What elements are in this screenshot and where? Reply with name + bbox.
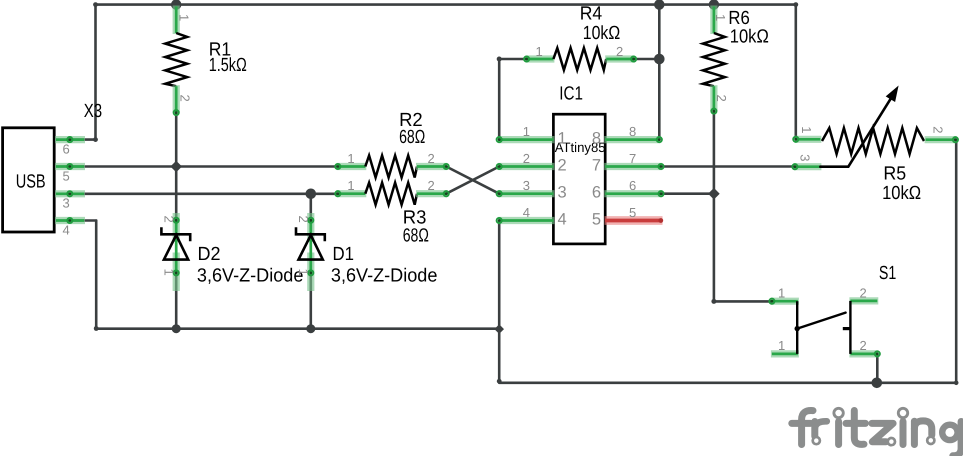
resistor R3 68 ohm (337, 190, 367, 197)
wire USB pin4 horizontal (71, 219, 96, 222)
svg-text:4: 4 (523, 205, 530, 220)
svg-text:68Ω: 68Ω (399, 127, 425, 148)
svg-text:1: 1 (523, 124, 530, 139)
wire USB pin6 to left vertical (71, 138, 96, 141)
svg-text:8: 8 (629, 124, 636, 139)
junction top rail / R1 (171, 0, 181, 10)
wire R1 pin2 down through junction to D2 pin2 (175, 112, 178, 222)
svg-text:7: 7 (592, 157, 601, 175)
fritzing logo (792, 408, 961, 456)
wire D2 pin1 down to bottom-left rail (175, 272, 178, 329)
svg-text:1: 1 (177, 14, 192, 21)
op-amp U1 : IC1 ATtiny85 DIP8 body (553, 114, 605, 244)
svg-text:5: 5 (63, 168, 70, 183)
junction bottom-left rail / D1 (306, 324, 315, 333)
wire USB pin3 to R3 pin1 (71, 193, 338, 196)
svg-text:4: 4 (63, 222, 70, 237)
IC1 pin 5 red wire (unrouted) (605, 216, 663, 225)
connector X3 USB (3, 128, 55, 232)
wire USB pin5 to R2 pin1 (71, 165, 338, 168)
svg-text:1: 1 (536, 44, 543, 59)
X3 pin 4 (55, 217, 85, 224)
IC1 pin 4 (498, 217, 554, 224)
svg-text:2: 2 (523, 151, 530, 166)
svg-text:2: 2 (296, 216, 311, 223)
resistor R2 68 ohm (337, 163, 367, 170)
svg-text:1: 1 (778, 338, 785, 353)
svg-text:1: 1 (713, 14, 728, 21)
wire crossover R3 pin2 to IC1 pin2 (446, 167, 499, 194)
S1 pin 2 bottom (849, 350, 878, 357)
wire crossover R2 pin2 to IC1 pin3 (446, 167, 499, 194)
svg-text:1: 1 (778, 285, 785, 300)
wire top rail down to IC1 pin8 (658, 5, 661, 140)
S1 lever (797, 313, 845, 329)
svg-text:1: 1 (558, 130, 567, 148)
wire left vertical from top rail to USB pin6 (94, 5, 97, 140)
svg-text:D2: D2 (198, 244, 221, 265)
svg-text:2: 2 (428, 151, 435, 166)
junction bottom-left rail / D2 (172, 324, 181, 333)
wire IC1 pin7 to R5 wiper pin3 (661, 165, 795, 168)
resistor R4 10k (526, 55, 555, 62)
node top-right corner (793, 2, 798, 7)
IC1 pin 8 (604, 136, 660, 143)
wire R4 pin1 left (499, 58, 526, 61)
wire D1 pin1 down to bottom-left rail (309, 272, 312, 329)
node bottom rail right corner (954, 381, 959, 386)
wire IC1 pin4 down (498, 221, 501, 382)
wire R6 pin2 down to switch S1 (713, 111, 716, 301)
S1 pin 1 top (771, 298, 799, 305)
svg-text:2: 2 (616, 44, 623, 59)
svg-text:2: 2 (860, 285, 867, 300)
svg-text:X3: X3 (84, 101, 102, 122)
S1 right pole (849, 301, 851, 354)
S1 pin 1 bottom (n.c.) (771, 350, 799, 357)
svg-text:1: 1 (347, 178, 354, 193)
resistor R6 10k (710, 6, 717, 35)
node USB pin6 wire corner (93, 137, 98, 142)
node top-left corner (93, 2, 98, 7)
diode D1 zener (307, 213, 314, 242)
svg-text:68Ω: 68Ω (403, 226, 429, 247)
S1 pin 2 top (849, 297, 878, 304)
svg-text:2: 2 (860, 338, 867, 353)
X3 pin 6 (55, 136, 85, 143)
svg-text:7: 7 (629, 151, 636, 166)
potentiometer R5 10k (795, 136, 822, 143)
svg-text:3: 3 (797, 154, 812, 161)
resistor R1 1.5k (173, 6, 180, 35)
node bottom-left corner (94, 326, 99, 331)
svg-text:3,6V-Z-Diode: 3,6V-Z-Diode (197, 265, 304, 286)
node IC1 pin4 drop corner (497, 379, 502, 384)
wire S1 pin2 down to bottom rail (876, 354, 879, 383)
svg-text:10kΩ: 10kΩ (882, 183, 921, 204)
X3 pin 3 (55, 190, 85, 197)
wire bottom-left ground rail (96, 327, 499, 330)
svg-text:6: 6 (592, 184, 601, 202)
svg-text:USB: USB (16, 172, 46, 193)
svg-text:R4: R4 (580, 3, 603, 24)
svg-text:2: 2 (714, 95, 729, 102)
wire bottom rail (499, 381, 956, 384)
junction top rail / IC1 pin8 drop (654, 0, 664, 10)
svg-text:2: 2 (558, 157, 567, 175)
svg-text:2: 2 (931, 126, 946, 133)
IC1 pin 3 (498, 190, 554, 197)
IC1 pin 1 (498, 136, 554, 143)
svg-text:1.5kΩ: 1.5kΩ (209, 55, 247, 76)
R5 wiper pin 3 (794, 163, 822, 170)
R5 resistive track zigzag (822, 128, 924, 154)
junction R4 pin2 / pin8 drop (654, 54, 665, 65)
IC1 pin 7 (604, 163, 662, 170)
wire R4 pin2 right (634, 58, 660, 61)
svg-text:3: 3 (63, 196, 70, 211)
svg-text:2: 2 (178, 95, 193, 102)
node S1 feed corner (711, 299, 716, 304)
wire top rail (VCC net) (96, 3, 796, 6)
svg-text:5: 5 (592, 211, 601, 229)
junction pin5 net / R1-D2 (170, 161, 182, 173)
svg-text:3,6V-Z-Diode: 3,6V-Z-Diode (331, 265, 438, 286)
junction top rail / R6 (709, 0, 719, 10)
IC1 pin 2 (498, 163, 554, 170)
svg-text:S1: S1 (879, 263, 896, 284)
svg-text:R5: R5 (883, 163, 906, 184)
wire USB pin4 down to bottom-left rail (95, 221, 98, 329)
svg-text:3: 3 (558, 184, 567, 202)
svg-text:2: 2 (428, 178, 435, 193)
svg-text:10kΩ: 10kΩ (583, 23, 620, 44)
IC1 pin 6 (604, 190, 662, 197)
svg-text:1: 1 (296, 269, 311, 276)
wire to S1 pin1 (714, 300, 772, 303)
junction bottom rail / S1 pin2 (872, 378, 883, 389)
junction bottom-left rail / IC1 pin4 drop (494, 324, 504, 334)
svg-text:2: 2 (161, 216, 176, 223)
svg-text:1: 1 (799, 126, 814, 133)
svg-text:8: 8 (592, 130, 601, 148)
svg-text:1: 1 (161, 269, 176, 276)
wire D1 pin2 up to pin3 net junction (309, 194, 312, 221)
junction pin3 net / D1 (306, 189, 317, 200)
S1 left pole (796, 301, 798, 354)
X3 pin 5 (55, 163, 85, 170)
svg-text:5: 5 (629, 205, 636, 220)
wire top rail right drop to R5 pin1 (794, 5, 797, 139)
node R4 pin1 corner (497, 57, 502, 62)
svg-text:1: 1 (347, 151, 354, 166)
svg-text:6: 6 (629, 178, 636, 193)
junction IC1 pin6 / R6 (708, 188, 720, 200)
wire right vertical R5 pin2 down to bottom rail (955, 140, 958, 383)
svg-text:6: 6 (63, 141, 70, 156)
svg-text:4: 4 (558, 211, 567, 229)
svg-text:10kΩ: 10kΩ (730, 27, 769, 48)
wire down to IC1 pin1 (498, 59, 501, 140)
svg-text:D1: D1 (333, 244, 355, 265)
wire IC1 pin6 to R6 net junction (661, 192, 714, 195)
diode D2 zener (173, 213, 180, 242)
svg-text:IC1: IC1 (559, 83, 583, 104)
svg-text:3: 3 (523, 178, 530, 193)
